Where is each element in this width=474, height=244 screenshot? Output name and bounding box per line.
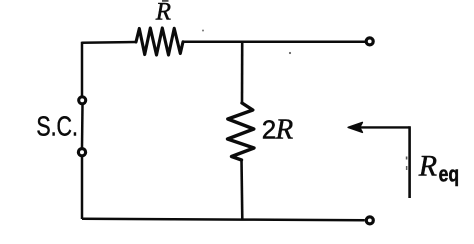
terminal bottom-right [366,217,373,224]
wire middle branch lower [240,160,243,220]
terminal S.C. lower [78,149,85,156]
speck [406,166,408,170]
speck (cropped ink at top edge above R) [162,0,169,2]
arrow Req shaft [358,126,410,128]
wire bottom horizontal [82,219,365,221]
speck [202,30,204,32]
svg-text:2: 2 [262,115,276,145]
speck [406,157,408,160]
terminal top-right [366,38,373,45]
resistor 2R [228,103,255,160]
svg-text:R: R [418,149,437,182]
svg-text:eq: eq [439,161,460,186]
wire left vertical upper [81,42,84,96]
wire left vertical lower [81,157,84,219]
wire top-left horizontal [82,41,137,44]
resistor R [136,28,183,55]
svg-text:R: R [155,0,171,26]
terminal S.C. upper [79,97,86,104]
arrow Req head [348,123,362,133]
svg-text:S.C.: S.C. [36,110,78,141]
arrow Req vertical [408,126,411,198]
wire top-right horizontal [183,41,366,44]
wire between S.C. terminals [81,105,84,148]
speck [289,52,291,54]
wire middle branch upper [241,43,244,103]
svg-text:R: R [275,114,294,146]
